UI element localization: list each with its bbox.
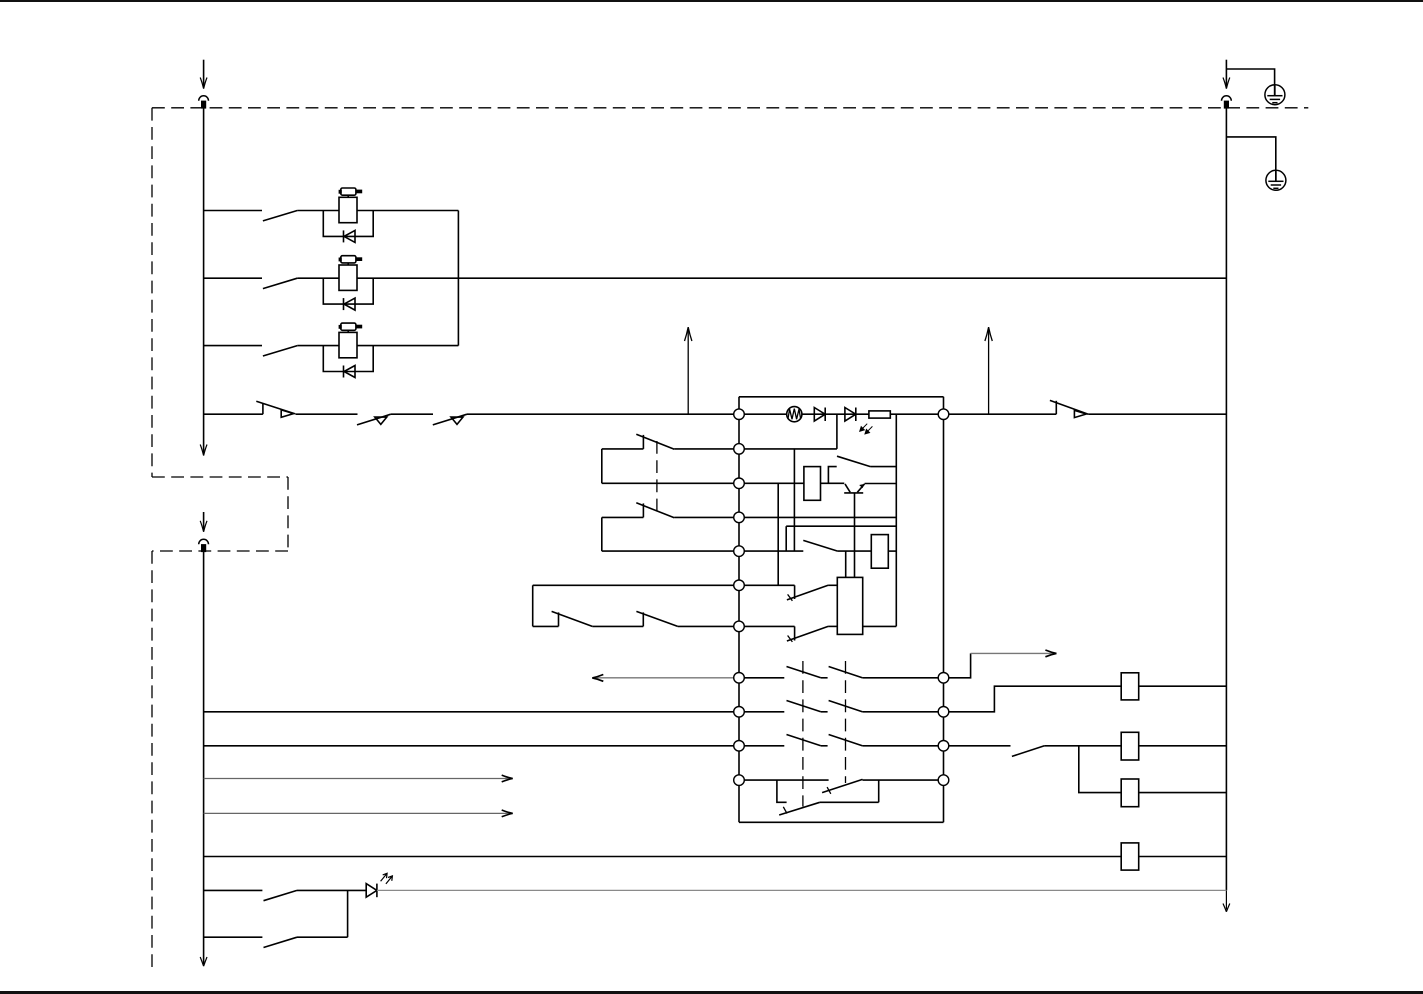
- resistor R2: [871, 535, 888, 569]
- branch 3 wire to coil: [297, 345, 339, 347]
- row6 NC contact bar: [794, 585, 796, 599]
- solenoid Y3 with flyback diode: [323, 323, 373, 377]
- diode D1: [814, 408, 825, 422]
- signal arrow up B: [988, 329, 990, 414]
- row8 wire mid: [821, 677, 828, 679]
- row3/row6 link wire: [777, 483, 779, 585]
- branch 1 wire after coil: [357, 210, 458, 212]
- lamp return wire (thin): [377, 889, 1227, 891]
- terminal X15: [938, 741, 949, 752]
- door NC switch B1: bar: [642, 435, 644, 449]
- terminal X5: [734, 546, 745, 557]
- stop chain loop wire: [532, 585, 534, 626]
- lamp branch B wire: [204, 936, 263, 938]
- main row wire block to NC switch: [944, 413, 1057, 415]
- branch 2 wire to coil: [297, 277, 339, 279]
- bottom border bar: [0, 991, 1423, 994]
- row6 wire: [533, 584, 795, 586]
- terminal X6: [734, 580, 745, 591]
- row10 wire right: [944, 745, 1011, 747]
- stop chain wire to row7: [678, 625, 795, 627]
- row7 wire to opto2: [828, 625, 837, 627]
- relay contact K1a pivot wire: [828, 467, 836, 484]
- arrowhead left bus bottom: [200, 957, 207, 966]
- row11 changeover tick top: [827, 787, 831, 794]
- terminal X10: [734, 741, 745, 752]
- wire to relay K2: [1044, 745, 1121, 747]
- stop NC switch 2: arm: [636, 611, 677, 626]
- second incoming cable in notch: [203, 512, 205, 530]
- transistor base feed wire: [854, 493, 856, 578]
- arrowhead on left cable: [200, 78, 207, 89]
- top border bar: [0, 0, 1423, 2]
- right supply cable (incoming, above enclosure): [1225, 60, 1227, 87]
- terminal X12: [938, 409, 949, 420]
- long wire to relay K4: [204, 856, 1122, 858]
- enclosure notch right edge: [287, 477, 289, 551]
- grommet left top: [199, 96, 209, 108]
- arrowhead right bus bottom: [1223, 904, 1230, 912]
- row9 wire from left bus: [204, 711, 739, 713]
- row8 contact arm a: [787, 667, 821, 678]
- NO contact arm row10 right: [1012, 746, 1045, 757]
- terminal X3: [734, 478, 745, 489]
- control unit bottom edge: [739, 821, 944, 823]
- branch B wire: [297, 936, 348, 938]
- row11 changeover arm top: [822, 779, 862, 792]
- terminal X1: [734, 409, 745, 420]
- NC limit switch S4: actuator triangle: [1074, 410, 1086, 417]
- row9 contact arm a: [787, 701, 821, 712]
- transistor Q1 emitter with arrow: [857, 484, 864, 492]
- row2/row5 link wire: [793, 449, 795, 551]
- NO switch branch A: [264, 890, 298, 900]
- lamp branch A wire: [204, 889, 263, 891]
- row11 lower wire: [820, 801, 879, 803]
- signal arrow up A: [687, 329, 689, 414]
- right bus: [1225, 108, 1227, 890]
- row9 wire left of contacts: [739, 711, 784, 713]
- row6 NC contact tick: [788, 594, 793, 600]
- row4 wire left of NC switch: [602, 516, 644, 518]
- terminal X9: [734, 707, 745, 718]
- K2 wire to right bus: [1139, 745, 1227, 747]
- mechanical link dashed: [656, 441, 658, 512]
- NO switch branch B: [264, 937, 298, 947]
- branch wire down to K3: [1079, 746, 1121, 793]
- main row wire to right bus: [1088, 413, 1226, 415]
- stop chain wire: [533, 625, 559, 627]
- terminal X4: [734, 512, 745, 523]
- terminal X2: [734, 444, 745, 455]
- branch A wire: [297, 889, 366, 891]
- row11 wire left: [739, 779, 829, 781]
- control unit left terminal rail: [738, 397, 740, 823]
- row4 wire: [674, 516, 896, 518]
- mechanical link dashed a: [802, 661, 804, 807]
- opto2 coil pin 1: [845, 551, 847, 577]
- switch contact branch 2: [263, 278, 297, 288]
- branch 1 wire left: [204, 210, 262, 212]
- wire to protective earth 2: [1226, 137, 1275, 182]
- door loop A wire: [601, 449, 603, 483]
- row7 NC contact arm: [787, 626, 828, 641]
- grommet left lower: [199, 539, 209, 551]
- stop NC switch 2: bar: [642, 612, 644, 626]
- main row wire segment: [391, 413, 433, 415]
- terminal X11: [734, 775, 745, 786]
- control unit top edge: [739, 396, 944, 398]
- mechanical link dashed b: [845, 661, 847, 783]
- branch 2 wire left: [204, 277, 262, 279]
- branch 3 wire after coil: [357, 345, 458, 347]
- NC limit switch S1: actuator triangle: [281, 410, 293, 417]
- K1 wire to right bus: [1139, 685, 1227, 687]
- row8 contact arm b: [829, 667, 863, 678]
- left bus (upper section): [203, 108, 205, 453]
- NC limit switch S1: arm: [256, 401, 295, 413]
- row10 wire left of contacts: [739, 745, 784, 747]
- terminal X7: [734, 621, 745, 632]
- enclosure notch bottom edge: [152, 550, 288, 552]
- wire opto to transistor: [821, 482, 845, 484]
- enclosure boundary top edge: [152, 107, 1308, 109]
- photodiode D2: [845, 408, 856, 422]
- terminal X8: [734, 673, 745, 684]
- NC limit switch S4: bar: [1055, 401, 1057, 414]
- signal arrow right row8: [971, 652, 1055, 654]
- row9 wire mid: [821, 711, 828, 713]
- relay coil K4: [1121, 843, 1139, 870]
- row8 step wire right: [944, 653, 971, 677]
- row7 NC contact tick: [788, 636, 793, 642]
- arrowhead left bus end: [200, 445, 207, 456]
- LED D3: [366, 884, 377, 898]
- relay coil K2: [1121, 732, 1139, 760]
- switch contact branch 3: [263, 346, 297, 356]
- opto2 output wire: [863, 625, 897, 627]
- resistor R1: [869, 411, 890, 418]
- row9 contact arm b: [829, 701, 863, 712]
- wire main row to row2: [836, 414, 838, 449]
- row3 wire: [602, 482, 804, 484]
- row10 wire mid: [821, 745, 828, 747]
- row5 wire: [602, 550, 804, 552]
- row6 wire to opto2: [828, 584, 837, 586]
- branch 1 wire to coil: [297, 210, 339, 212]
- terminal X14: [938, 707, 949, 718]
- main row wire inside block: [739, 413, 944, 415]
- NC limit switch S4: arm: [1050, 400, 1088, 414]
- transistor Q1 base bar: [844, 492, 863, 494]
- door loop B wire: [601, 517, 603, 551]
- main row wire segment: [295, 413, 357, 415]
- control unit right terminal rail: [943, 397, 945, 823]
- row11 wire right: [863, 779, 944, 781]
- optocoupler 2 body: [837, 577, 862, 634]
- branch join wire: [347, 890, 349, 937]
- loop left wire: [785, 526, 787, 551]
- relay coil K3: [1121, 779, 1139, 807]
- row10 wire from left bus: [204, 745, 739, 747]
- main row wire from bus: [204, 413, 263, 415]
- stop NC switch 1: bar: [558, 612, 560, 626]
- enclosure notch top edge: [152, 476, 288, 478]
- signal arrow right b: [204, 812, 511, 814]
- NC limit switch S1: bar: [262, 403, 264, 414]
- row10 contact arm a: [787, 735, 821, 746]
- relay contact K1a wire: [870, 466, 896, 468]
- grommet right top: [1222, 96, 1232, 108]
- branch 2 wire to right bus: [357, 277, 1226, 279]
- row10 wire right: [862, 745, 943, 747]
- stop NC switch 1: arm: [552, 611, 593, 626]
- photodiode light arrows: [860, 424, 867, 432]
- emitter wire to feed: [865, 483, 897, 485]
- NO limit switch S2: arm: [357, 414, 391, 425]
- main row wire to control block: [467, 413, 739, 415]
- wire to protective earth 1: [1226, 69, 1274, 96]
- NO limit switch S3: actuator triangle: [451, 417, 463, 424]
- terminal X13: [938, 673, 949, 684]
- R2 wire to feed: [888, 550, 896, 552]
- signal arrow left from row8: [594, 677, 739, 679]
- row5 NO contact arm: [803, 540, 837, 551]
- row2 wire: [674, 448, 837, 450]
- enclosure boundary left edge lower: [151, 551, 153, 970]
- door NC switch B2: bar: [642, 503, 644, 517]
- row11 lower wire riser: [878, 780, 880, 802]
- vertical feed wire inside block: [895, 414, 897, 626]
- door NC switch B1: arm: [636, 434, 674, 449]
- protective earth PE2: [1266, 170, 1286, 190]
- loop top wire: [786, 525, 896, 527]
- terminal X16: [938, 775, 949, 786]
- door NC switch B2: arm: [636, 503, 674, 518]
- row8 wire left of contacts: [739, 677, 784, 679]
- NO limit switch S3: arm: [433, 414, 467, 425]
- row7 NC contact bar: [794, 626, 796, 640]
- transistor Q1 collector: [845, 484, 850, 492]
- row11 common step wire: [777, 780, 787, 802]
- arrowhead second cable: [200, 521, 207, 532]
- row10 contact arm b: [829, 735, 863, 746]
- stop chain wire middle: [592, 625, 643, 627]
- row2 wire left of NC switch: [602, 448, 644, 450]
- row11 changeover tick bottom: [783, 807, 787, 814]
- row8 wire right: [862, 677, 943, 679]
- optocoupler input resistor rect: [804, 467, 821, 501]
- signal arrow right a: [204, 778, 511, 780]
- solenoid Y1 with flyback diode: [323, 188, 373, 242]
- solenoid Y2 with flyback diode: [323, 256, 373, 310]
- relay coil K1: [1121, 673, 1139, 700]
- branch 3 wire left: [204, 345, 262, 347]
- row9 step wire to relay K1: [944, 686, 1122, 712]
- NO limit switch S2: actuator triangle: [375, 417, 387, 424]
- row5 wire after contact: [838, 550, 872, 552]
- K4 wire to right bus: [1139, 856, 1227, 858]
- switch contact branch 1: [263, 211, 297, 221]
- LED D3 light arrows: [381, 873, 388, 881]
- row11 changeover arm bottom: [779, 802, 820, 815]
- row9 wire right: [862, 711, 943, 713]
- left bus (lower section): [203, 552, 205, 964]
- protective earth PE1: [1265, 85, 1285, 105]
- tie wire joining branches 1-3: [457, 211, 459, 346]
- indicator lamp H1: [787, 407, 802, 422]
- arrowhead on right cable: [1223, 78, 1230, 89]
- left supply cable (incoming, above enclosure): [203, 60, 205, 87]
- K3 wire to right bus: [1139, 792, 1227, 794]
- row6 NC contact arm: [787, 585, 828, 600]
- relay contact K1a arm: [837, 456, 870, 466]
- enclosure boundary left edge upper: [151, 108, 153, 477]
